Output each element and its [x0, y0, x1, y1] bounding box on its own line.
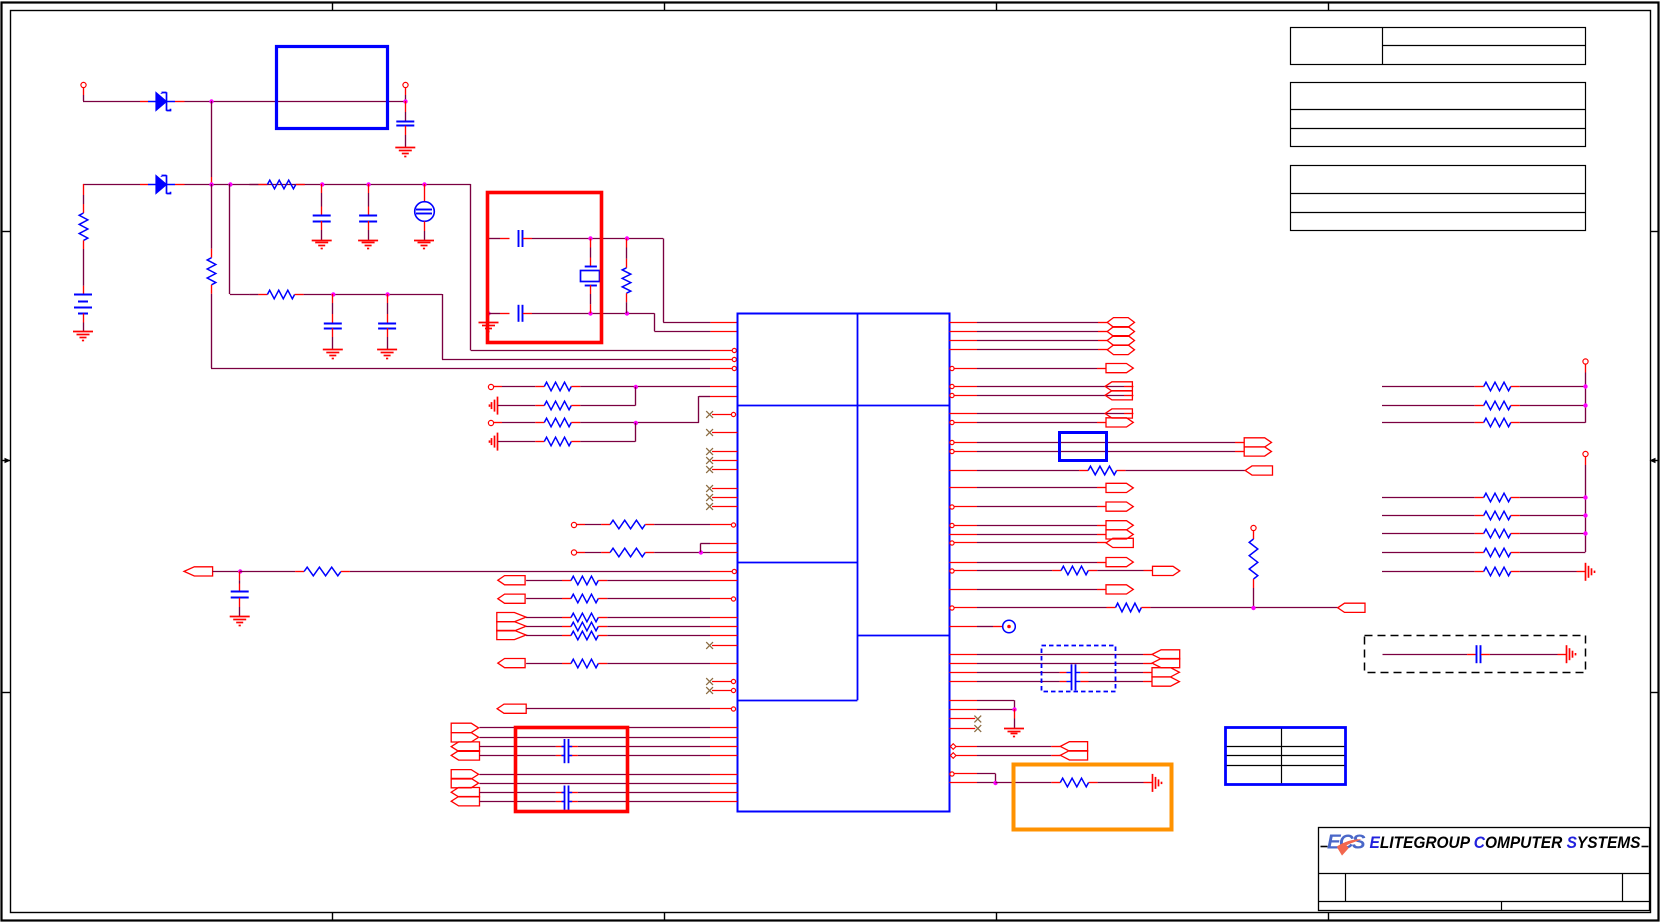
- wire: [1481, 654, 1567, 656]
- pin bubble: [950, 420, 954, 424]
- wire: [480, 783, 738, 785]
- wire: [955, 442, 1245, 444]
- wire: [598, 598, 731, 600]
- capacitor C6: [519, 230, 523, 247]
- wire: [569, 746, 738, 748]
- resistor R16: [571, 622, 598, 631]
- wire: [175, 101, 405, 103]
- pin bubble: [950, 541, 954, 545]
- wire: [663, 322, 737, 324]
- port DATA (bidir): [1107, 336, 1134, 346]
- title block 1 (revision table): [1291, 27, 1586, 65]
- wire: [569, 801, 738, 803]
- wire: [645, 552, 737, 554]
- port IN13 (left arrow): [1152, 659, 1180, 668]
- wire: [387, 294, 389, 323]
- ground: [323, 350, 343, 359]
- pin (no connect): [949, 728, 975, 730]
- wire: [480, 755, 565, 757]
- wire: [211, 285, 213, 368]
- wire: [213, 571, 240, 573]
- pin bubble: [950, 366, 954, 370]
- wire: [955, 422, 1107, 424]
- wire: [526, 663, 571, 665]
- signal ground: [1567, 645, 1576, 663]
- wire: [321, 184, 323, 216]
- wire: [571, 422, 699, 424]
- wire: [598, 580, 737, 582]
- pin (no connect): [712, 412, 736, 416]
- diode D2 (zener): [148, 175, 175, 194]
- no-connect X: [706, 448, 713, 455]
- wire: [1382, 497, 1484, 499]
- wire: [321, 221, 323, 240]
- pin (no connect): [712, 451, 737, 453]
- wire: [502, 386, 544, 388]
- wire: [1089, 782, 1153, 784]
- terminal J8: [1583, 359, 1588, 373]
- node junction: [625, 236, 629, 240]
- node junction: [320, 182, 324, 186]
- wire: [949, 626, 1002, 628]
- node junction: [993, 781, 997, 785]
- ground: [414, 241, 434, 249]
- resistor Rp: [1484, 401, 1511, 410]
- wire: [488, 313, 490, 322]
- terminal J6: [571, 550, 585, 555]
- wire: [949, 340, 1107, 342]
- wire: [1383, 654, 1477, 656]
- wire: [1253, 579, 1255, 608]
- wire: [626, 293, 628, 313]
- no-connect X: [706, 429, 713, 436]
- node junction: [1583, 403, 1587, 407]
- wire: [1382, 571, 1484, 573]
- wire: [956, 755, 1060, 757]
- pin diamond: [950, 744, 956, 750]
- no-connect X: [706, 678, 713, 685]
- pin bubble: [950, 772, 954, 776]
- wire: [368, 184, 370, 216]
- capacitor C2: [313, 216, 331, 222]
- wire: [480, 774, 738, 776]
- wire: [949, 709, 1014, 711]
- wire: [585, 524, 610, 526]
- wire: [949, 487, 1106, 489]
- resistor Rp: [1484, 567, 1511, 576]
- capacitor C4: [324, 324, 342, 329]
- wire: [332, 328, 334, 350]
- port A5 (right arrow): [451, 770, 478, 779]
- title block 2: [1290, 83, 1586, 147]
- terminal J7: [1251, 525, 1256, 539]
- wire: [635, 423, 637, 442]
- ground: [73, 332, 93, 341]
- port IN14 (left arrow): [1060, 742, 1087, 751]
- port IN5 (left arrow): [497, 704, 526, 713]
- pin bubble: [732, 366, 736, 370]
- pin (no connect): [712, 645, 737, 647]
- terminal J9: [1583, 451, 1588, 465]
- node junction: [209, 99, 213, 103]
- ground: [479, 323, 499, 332]
- wire: [949, 654, 1152, 656]
- port IN10 (left arrow): [1106, 538, 1133, 547]
- port OUT5 (right arrow): [1106, 418, 1133, 427]
- terminal J1: [81, 82, 86, 101]
- wire: [480, 746, 565, 748]
- pin (no connect): [712, 497, 737, 499]
- wire: [498, 405, 545, 407]
- pin bubble: [732, 569, 736, 573]
- pin bubble: [950, 505, 954, 509]
- wire: [949, 534, 1106, 536]
- wire: [1585, 465, 1587, 552]
- wire: [175, 184, 471, 186]
- pin bubble: [950, 523, 954, 527]
- wire: [949, 681, 1066, 683]
- wire: [1080, 672, 1152, 674]
- no-connect X: [706, 687, 713, 694]
- no-connect X: [974, 716, 981, 723]
- port OUT7 (right arrow): [1244, 447, 1271, 456]
- port OUT13 (right arrow): [1106, 585, 1133, 594]
- node junction: [699, 550, 703, 554]
- port OUT8 (right arrow): [1106, 483, 1133, 492]
- wire: [1511, 422, 1586, 424]
- port OUT11 (right arrow): [1106, 530, 1133, 539]
- wire: [341, 571, 732, 573]
- node junction: [588, 236, 592, 240]
- wire: [949, 470, 1088, 472]
- port A4 (left arrow): [451, 751, 479, 760]
- resistor R7: [544, 401, 571, 410]
- wire: [598, 663, 737, 665]
- capacitor C11: [1067, 664, 1081, 690]
- wire: [83, 184, 85, 213]
- resistor R6: [544, 382, 571, 391]
- wire: [470, 184, 472, 350]
- ground: [358, 241, 378, 249]
- pin bubble: [731, 707, 735, 711]
- resistor Rp: [1484, 493, 1511, 502]
- wire: [239, 598, 241, 617]
- signal ground: [490, 433, 498, 451]
- resistor Rp: [1484, 548, 1511, 557]
- wire: [949, 700, 1014, 709]
- resistor R12: [304, 567, 341, 576]
- resistor R2: [79, 213, 88, 240]
- wire: [955, 395, 1134, 397]
- battery BT2 (coin cell): [415, 202, 435, 222]
- port IN7 (left arrow): [1105, 391, 1132, 400]
- wire: [1382, 405, 1484, 407]
- node junction: [228, 182, 232, 186]
- pin bubble: [732, 357, 736, 361]
- node junction: [625, 311, 629, 315]
- ground: [377, 350, 397, 359]
- pin bubble: [731, 523, 735, 527]
- wire: [955, 542, 1107, 544]
- crystal Y1: [581, 267, 600, 286]
- no-connect X: [706, 457, 713, 464]
- wire: [699, 396, 738, 423]
- port DATA (bidir): [1107, 318, 1134, 328]
- capacitor C5: [378, 324, 396, 329]
- resistor R22: [1116, 603, 1142, 612]
- wire: [1117, 470, 1246, 472]
- resistor R11: [610, 548, 645, 557]
- svg-text:ELITEGROUP COMPUTER SYSTEMS: ELITEGROUP COMPUTER SYSTEMS: [1370, 833, 1642, 852]
- node junction: [209, 182, 213, 186]
- wire: [955, 506, 1107, 508]
- wire: [949, 672, 1066, 674]
- wire: [424, 184, 426, 202]
- terminal J3: [488, 384, 502, 389]
- underscore mark: [1642, 846, 1649, 848]
- resistor R1: [249, 180, 304, 189]
- node junction: [1583, 384, 1587, 388]
- node junction: [1583, 531, 1587, 535]
- wire: [955, 774, 996, 783]
- pin bubble: [950, 393, 954, 397]
- wire: [1080, 681, 1152, 683]
- wire: [526, 626, 571, 628]
- port IN9 (left arrow): [1245, 466, 1272, 475]
- resistor R18: [571, 659, 598, 668]
- pin (no connect): [712, 460, 737, 462]
- port OUT9 (right arrow): [1106, 502, 1133, 511]
- node junction: [385, 292, 389, 296]
- resistor R15: [571, 613, 598, 622]
- port OUT4 (right arrow): [1106, 364, 1133, 373]
- port IN4 (left arrow): [498, 659, 525, 668]
- pin (no connect): [712, 469, 737, 471]
- wire: [996, 782, 1061, 784]
- port IN11 (left arrow): [1338, 603, 1365, 612]
- wire: [1382, 533, 1484, 535]
- no-connect X: [706, 485, 713, 492]
- wire: [211, 184, 213, 258]
- IC U1 (main controller block): [737, 313, 949, 812]
- capacitor C12: [1477, 645, 1481, 663]
- resistor R23: [1060, 778, 1088, 787]
- wire: [211, 368, 732, 370]
- wire: [955, 386, 1134, 388]
- wire: [502, 422, 544, 424]
- pin (no connect): [712, 488, 737, 490]
- wire: [1511, 386, 1586, 388]
- port A6 (right arrow): [451, 778, 478, 787]
- no-connect X: [706, 411, 713, 418]
- pin bubble: [731, 597, 735, 601]
- resistor R8: [544, 418, 571, 427]
- pin diamond: [950, 753, 956, 759]
- wire: [424, 221, 426, 240]
- wire: [569, 792, 738, 794]
- pin bubble: [950, 449, 954, 453]
- wire: [1511, 515, 1586, 517]
- signal ground: [1586, 563, 1595, 581]
- wire: [590, 239, 592, 267]
- wire: [1088, 570, 1152, 572]
- wire: [83, 240, 85, 294]
- port OUT15 (right arrow): [1152, 668, 1179, 677]
- wire: [654, 313, 656, 331]
- port A1 (right arrow): [451, 723, 478, 732]
- wire: [83, 313, 85, 331]
- wire: [1511, 552, 1586, 554]
- port IN6 (left arrow): [1105, 382, 1132, 391]
- wire: [645, 524, 731, 526]
- no-connect X: [706, 503, 713, 510]
- no-connect X: [706, 466, 713, 473]
- wire: [1382, 515, 1484, 517]
- wire: [949, 322, 1107, 324]
- pin bubble: [950, 440, 954, 444]
- resistor R21: [1249, 539, 1258, 579]
- AC coupling outline (dashed box): [1365, 636, 1586, 673]
- wire: [489, 313, 510, 315]
- wire: [1014, 709, 1016, 728]
- wire: [955, 570, 1062, 572]
- port A2 (right arrow): [451, 733, 478, 742]
- ground: [230, 617, 250, 626]
- wire: [663, 239, 665, 323]
- underscore mark: [1321, 846, 1328, 848]
- company name text: [1370, 833, 1642, 852]
- wire: [230, 294, 250, 296]
- resistor Rp: [1484, 382, 1511, 391]
- wire: [1382, 422, 1484, 424]
- wire: [635, 387, 637, 406]
- wire: [387, 328, 389, 350]
- capacitor C9: [562, 739, 573, 763]
- wire: [949, 663, 1152, 665]
- wire: [955, 525, 1107, 527]
- pin bubble: [732, 348, 736, 352]
- ECS logo: [1327, 831, 1366, 856]
- wire: [654, 331, 737, 333]
- wire: [949, 562, 1106, 564]
- wire: [1382, 552, 1484, 554]
- wire: [239, 571, 241, 591]
- resistor R3: [249, 290, 303, 299]
- wire: [955, 451, 1245, 453]
- node junction: [1251, 606, 1255, 610]
- wire: [1511, 571, 1586, 573]
- node junction: [238, 569, 242, 573]
- pin (no connect): [712, 432, 737, 434]
- pin bubble: [950, 569, 954, 573]
- capacitor C8: [231, 592, 249, 598]
- level shifter U3 (blue box): [1060, 433, 1107, 461]
- wire: [1382, 386, 1484, 388]
- node junction: [486, 311, 490, 315]
- pin (no connect): [712, 688, 736, 692]
- wire: [949, 782, 995, 784]
- wire: [471, 350, 732, 352]
- port IN8 (left arrow): [1105, 409, 1132, 418]
- terminal J5: [571, 522, 585, 527]
- wire: [211, 101, 213, 184]
- wire: [569, 755, 738, 757]
- port DATA (bidir): [1107, 327, 1134, 337]
- wire: [626, 239, 628, 268]
- no-connect X: [706, 642, 713, 649]
- wire: [949, 589, 1106, 591]
- resistor R19: [1088, 466, 1117, 475]
- port A7 (left arrow): [451, 788, 479, 797]
- resistor R13: [571, 576, 598, 585]
- wire: [571, 441, 635, 443]
- wire: [83, 101, 148, 103]
- port A8 (left arrow): [451, 797, 479, 806]
- wire: [405, 101, 407, 121]
- wire: [526, 635, 571, 637]
- port OUT12 (right arrow): [1106, 558, 1133, 567]
- voltage regulator module U2 (blue box): [277, 47, 388, 129]
- signal ground: [490, 397, 498, 415]
- port OUT6 (right arrow): [1244, 438, 1271, 447]
- wire: [571, 405, 635, 407]
- resistor Rp: [1484, 418, 1511, 427]
- node junction: [403, 99, 407, 103]
- test point TP1: [1003, 620, 1016, 633]
- node junction: [1583, 513, 1587, 517]
- node junction: [634, 421, 638, 425]
- termination outline (orange box): [1014, 765, 1172, 830]
- wire: [585, 552, 610, 554]
- wire: [405, 126, 407, 148]
- wire: [949, 331, 1107, 333]
- wire: [1511, 497, 1586, 499]
- wire: [523, 238, 663, 240]
- wire: [523, 313, 655, 315]
- port OUT10 (right arrow): [1106, 521, 1133, 530]
- no-connect X: [974, 725, 981, 732]
- pin (no connect): [712, 679, 736, 683]
- node junction: [422, 182, 426, 186]
- wire: [571, 386, 737, 388]
- pin bubble: [950, 384, 954, 388]
- wire: [1141, 607, 1337, 609]
- port OUT3 (right arrow): [497, 630, 526, 639]
- resistor R5: [622, 268, 631, 293]
- port IN3 (left arrow): [498, 594, 525, 603]
- capacitor C1: [396, 122, 414, 126]
- port IN12 (left arrow): [1152, 650, 1180, 659]
- battery BT1: [74, 295, 92, 314]
- port A3 (left arrow): [451, 742, 479, 751]
- wire: [955, 368, 1107, 370]
- resistor R9: [544, 437, 571, 446]
- bottom title block: [1318, 828, 1649, 911]
- wire: [304, 294, 442, 296]
- wire: [700, 544, 737, 553]
- wire: [442, 359, 732, 361]
- wire: [1585, 373, 1587, 423]
- wire: [480, 801, 565, 803]
- terminal J4: [488, 420, 502, 425]
- resistor Rp: [1484, 511, 1511, 520]
- node junction: [331, 292, 335, 296]
- wire: [240, 571, 304, 573]
- jumper table (blue box): [1226, 728, 1346, 785]
- capacitor C7: [519, 305, 523, 322]
- wire: [949, 413, 1133, 415]
- node junction: [366, 182, 370, 186]
